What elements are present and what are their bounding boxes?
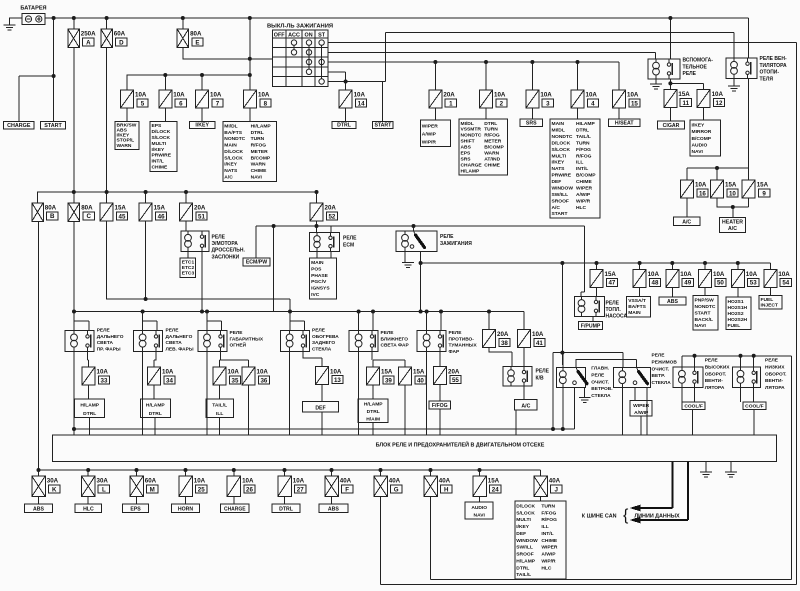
svg-text:HLC: HLC <box>576 205 587 211</box>
svg-text:ОЧИСТ.: ОЧИСТ. <box>591 379 609 385</box>
svg-text:OFF: OFF <box>274 32 285 38</box>
svg-text:WARN: WARN <box>484 151 499 157</box>
wire fan relay output bus <box>687 79 749 181</box>
wire wiper mode outputs <box>622 388 647 436</box>
svg-text:WIP/R: WIP/R <box>576 198 591 204</box>
svg-text:ILL: ILL <box>576 160 583 166</box>
wire relay 6 feed <box>427 312 441 331</box>
svg-text:R/FOG: R/FOG <box>251 143 267 149</box>
label box F/PUMP <box>579 322 603 330</box>
fusible link K (30A) <box>32 476 60 497</box>
svg-text:PNP/SW: PNP/SW <box>695 298 715 304</box>
svg-text:45: 45 <box>119 213 126 220</box>
list box fuse 8 loads <box>223 121 276 181</box>
svg-text:L: L <box>102 486 106 493</box>
svg-text:C: C <box>86 213 91 220</box>
wire ETC contact output <box>201 252 203 312</box>
wire fuse 10,9 outputs <box>717 198 749 217</box>
svg-text:К/В: К/В <box>536 375 544 381</box>
junction dots wiper feed <box>560 351 564 355</box>
svg-text:NATS: NATS <box>552 166 566 172</box>
fuse 6 (10A) <box>159 90 187 108</box>
fusible link H (40A) <box>424 476 452 497</box>
svg-text:MI/DL: MI/DL <box>461 121 474 127</box>
svg-text:ОБОРОТ.: ОБОРОТ. <box>705 371 727 377</box>
label box EPS <box>123 504 149 513</box>
svg-text:10A: 10A <box>712 91 724 98</box>
list box fuse 50 loads <box>693 296 718 331</box>
svg-text:POS: POS <box>311 266 322 272</box>
svg-text:ВЕТР.: ВЕТР. <box>652 373 666 379</box>
text fan low name <box>765 358 787 392</box>
svg-text:10A: 10A <box>354 92 366 99</box>
svg-text:РЕЛЕ: РЕЛЕ <box>705 358 719 364</box>
wire wiper relay feed line <box>553 353 623 429</box>
wire bus 263 <box>421 263 771 365</box>
svg-text:COOL/F: COOL/F <box>745 403 763 409</box>
svg-text:TAIL/L: TAIL/L <box>212 403 227 409</box>
svg-text:H/LAMP: H/LAMP <box>461 168 480 174</box>
wire fuse 33 output <box>89 385 90 435</box>
wire wiper blade link <box>576 360 637 368</box>
svg-text:CHIME: CHIME <box>541 538 557 544</box>
label box HEATER A/C <box>720 217 746 232</box>
svg-text:CHIME: CHIME <box>152 165 168 171</box>
svg-text:СТЕКЛА: СТЕКЛА <box>652 380 672 386</box>
wire fuse 47-54 outputs <box>597 287 771 297</box>
ground block 2 <box>725 472 737 477</box>
relay fan high (РЕЛЕ ВЫСОКИХ ОБОРОТ. ВЕНТИЛЯТОРА) <box>673 367 703 387</box>
fusible link C (80A) <box>68 203 94 222</box>
svg-text:40A: 40A <box>549 478 561 485</box>
svg-text:48: 48 <box>652 280 659 287</box>
svg-text:5: 5 <box>141 100 145 107</box>
svg-text:49: 49 <box>684 280 691 287</box>
svg-text:I/KEY: I/KEY <box>692 122 706 128</box>
ground wiper main <box>579 398 591 403</box>
wire fuse 5-8 bus <box>127 75 250 90</box>
svg-text:ВЫКЛ-ЛЬ ЗАЖИГАНИЯ: ВЫКЛ-ЛЬ ЗАЖИГАНИЯ <box>267 24 333 30</box>
svg-text:РЕЛЕ: РЕЛЕ <box>166 328 180 334</box>
svg-text:ВЕНТИ-: ВЕНТИ- <box>765 378 784 384</box>
fuse 16 (10A) <box>681 180 709 198</box>
svg-text:РЕЛЕ: РЕЛЕ <box>683 71 697 77</box>
list box ETC loads <box>180 258 196 278</box>
svg-text:DTRL: DTRL <box>516 565 529 571</box>
fuse 39 (15A) <box>367 367 395 385</box>
svg-text:52: 52 <box>328 213 335 220</box>
label box A/C bottom <box>515 400 538 410</box>
label box TAIL ILL <box>206 399 234 417</box>
text relay5 name <box>381 330 410 349</box>
wire fuse 11,12 outputs <box>670 108 703 122</box>
wire AC relay output <box>516 386 524 435</box>
fusible link B (80A) <box>32 203 58 222</box>
svg-text:53: 53 <box>750 280 757 287</box>
svg-text:WIP/R: WIP/R <box>541 558 556 564</box>
svg-text:HO2S1: HO2S1 <box>728 299 744 305</box>
svg-text:ПРОТИВО-: ПРОТИВО- <box>449 336 475 342</box>
svg-text:D/LOCK: D/LOCK <box>224 149 243 155</box>
svg-text:15A: 15A <box>413 369 425 376</box>
fuse 35 (10A) <box>213 367 241 385</box>
svg-text:IVC: IVC <box>311 292 320 298</box>
text data lines label <box>634 514 680 520</box>
svg-text:10A: 10A <box>162 369 174 376</box>
svg-text:SRS: SRS <box>461 156 472 162</box>
svg-text:COOL/F: COOL/F <box>684 403 702 409</box>
relay ignition (РЕЛЕ ЗАЖИГАНИЯ) <box>396 231 437 252</box>
text fan relay name <box>760 56 787 82</box>
svg-text:DTRL: DTRL <box>279 507 294 513</box>
svg-text:MIRROR: MIRROR <box>692 129 712 135</box>
svg-text:БЛОК РЕЛЕ И ПРЕДОХРАНИТЕЛЕЙ В: БЛОК РЕЛЕ И ПРЕДОХРАНИТЕЛЕЙ В ДВИГАТЕЛЬН… <box>376 441 545 449</box>
wire row4 output to fuse 14 <box>328 72 345 90</box>
svg-text:F/FOG: F/FOG <box>432 403 448 409</box>
svg-text:BA/FTS: BA/FTS <box>628 304 646 310</box>
junction dots bus 263 <box>419 261 740 265</box>
svg-text:B/COMP: B/COMP <box>484 145 504 151</box>
svg-text:DTRL: DTRL <box>367 409 380 415</box>
svg-text:NONDTC: NONDTC <box>552 134 573 140</box>
fuse 34 (10A) <box>148 367 176 385</box>
svg-text:TAIL/L: TAIL/L <box>576 134 591 140</box>
svg-text:S/LOCK: S/LOCK <box>516 510 535 516</box>
fusible link F (40A) <box>325 476 353 497</box>
label box HORN <box>172 504 200 513</box>
svg-text:VSSA/T: VSSA/T <box>628 298 646 304</box>
wire fan relay feed line <box>431 356 792 580</box>
svg-text:ДАЛЬНЕГО: ДАЛЬНЕГО <box>166 334 193 340</box>
svg-text:AT/IND: AT/IND <box>484 156 500 162</box>
CAN arrow 1 <box>630 505 641 512</box>
svg-text:10A: 10A <box>746 271 758 278</box>
svg-text:CIGAR: CIGAR <box>663 123 680 129</box>
svg-text:ФАР: ФАР <box>449 349 460 355</box>
svg-text:16: 16 <box>699 190 706 197</box>
svg-text:1: 1 <box>449 100 453 107</box>
wire charge/start feed <box>19 18 54 122</box>
svg-text:10A: 10A <box>532 331 544 338</box>
wire fuse 13 output <box>321 385 323 436</box>
svg-text:EPS: EPS <box>461 151 472 157</box>
svg-text:A/C: A/C <box>682 219 691 225</box>
svg-text:ОБОГРЕВА: ОБОГРЕВА <box>312 334 339 340</box>
junction dots ignition outputs <box>344 60 580 84</box>
fuse 45 (15A) <box>100 203 128 221</box>
wire fuse 16 output <box>686 198 688 217</box>
text ETC relay name <box>212 235 246 261</box>
svg-text:ACC: ACC <box>288 32 300 38</box>
wire fuse 5-8,14 outputs <box>127 108 346 121</box>
wire fuse 39,40 outputs <box>373 385 405 435</box>
svg-text:SROOF: SROOF <box>516 552 533 558</box>
ground block 1 <box>700 472 712 477</box>
svg-text:40A: 40A <box>389 478 401 485</box>
fuse 51 (20A) <box>180 203 208 221</box>
svg-text:15: 15 <box>631 100 638 107</box>
svg-text:DTRL: DTRL <box>337 122 352 128</box>
svg-text:РЕЛЕ: РЕЛЕ <box>381 330 395 336</box>
wire bottom outputs <box>39 497 541 505</box>
CAN arrow 2 <box>630 517 641 524</box>
label box WIPER AWIP <box>630 401 652 416</box>
svg-text:10A: 10A <box>97 369 109 376</box>
svg-text:ЛЯТОРА: ЛЯТОРА <box>705 385 725 391</box>
svg-text:10A: 10A <box>242 478 254 485</box>
svg-text:36: 36 <box>260 377 267 384</box>
svg-text:INT/L: INT/L <box>541 531 553 537</box>
svg-text:СВЕТА ФАР: СВЕТА ФАР <box>381 343 410 349</box>
wire fuse 1-4,15 outputs <box>435 108 619 120</box>
svg-text:H/AIM: H/AIM <box>366 416 380 422</box>
svg-text:TURN: TURN <box>251 136 265 142</box>
wire relay5 outputs <box>359 352 405 436</box>
svg-text:250A: 250A <box>81 31 96 38</box>
svg-text:20A: 20A <box>194 205 206 212</box>
fuse 14 (10A) <box>339 90 367 108</box>
fuse 33 (10A) <box>82 367 110 385</box>
svg-text:DTRL: DTRL <box>576 128 589 134</box>
wire link E drop <box>183 18 250 59</box>
svg-text:NONDTC: NONDTC <box>224 136 245 142</box>
svg-text:10A: 10A <box>540 92 552 99</box>
svg-text:СВЕТА: СВЕТА <box>166 340 183 346</box>
label box ECM/PW <box>243 258 270 266</box>
fuse 1 (20A) <box>429 90 457 108</box>
wire aux relay output <box>670 79 703 90</box>
label box HLAMP DTRL HAIM <box>358 399 388 423</box>
svg-text:F/FOG: F/FOG <box>541 510 556 516</box>
svg-text:WIP/R: WIP/R <box>422 139 437 145</box>
list box fuse 4 loads <box>550 119 600 218</box>
svg-text:БАТАРЕЯ: БАТАРЕЯ <box>20 6 46 12</box>
fuse 15 (10A) <box>613 90 641 108</box>
fusible link A (250A) <box>68 29 96 48</box>
svg-text:K: K <box>52 486 57 493</box>
svg-text:15A: 15A <box>725 182 737 189</box>
svg-text:BRK/SW: BRK/SW <box>117 122 137 128</box>
svg-text:ТЕЛЬНОЕ: ТЕЛЬНОЕ <box>683 64 708 70</box>
svg-text:46: 46 <box>158 213 165 220</box>
text ECM relay name <box>343 236 357 249</box>
label box SRS <box>520 119 543 127</box>
svg-text:MULTI: MULTI <box>552 153 567 159</box>
svg-text:15A: 15A <box>605 271 617 278</box>
svg-text:CHIME: CHIME <box>576 179 592 185</box>
svg-text:ECM: ECM <box>343 242 354 248</box>
svg-text:ПР. ФАРЫ: ПР. ФАРЫ <box>97 346 121 352</box>
svg-text:СТЕКЛА: СТЕКЛА <box>591 393 611 399</box>
relay throttle motor (РЕЛЕ Э/МОТОРА ДРОССЕЛЬН. ЗАСЛОНКИ) <box>181 231 209 252</box>
list box ECM loads <box>310 258 337 299</box>
wire ignition relay supply line 226 <box>256 221 585 312</box>
svg-text:F/FOG: F/FOG <box>576 147 591 153</box>
svg-text:PRWIRE: PRWIRE <box>152 153 172 159</box>
svg-text:MAIN: MAIN <box>552 121 565 127</box>
svg-text:10A: 10A <box>648 271 660 278</box>
svg-text:SW/ILL: SW/ILL <box>516 545 533 551</box>
svg-text:ABS: ABS <box>461 145 472 151</box>
label box DEF <box>303 402 339 412</box>
svg-text:CHIME: CHIME <box>484 162 500 168</box>
text relay1 name <box>97 328 124 353</box>
svg-text:80A: 80A <box>81 205 93 212</box>
svg-text:РЕЛЕ: РЕЛЕ <box>440 234 454 240</box>
svg-text:H: H <box>444 486 449 493</box>
wire bus P 299 <box>107 221 291 312</box>
junction dots bus 192 <box>72 190 319 194</box>
svg-text:I/KEY: I/KEY <box>552 160 566 166</box>
svg-text:H/LAMP: H/LAMP <box>146 403 165 409</box>
svg-text:METER: METER <box>251 149 269 155</box>
svg-text:РЕЛЕ: РЕЛЕ <box>765 358 779 364</box>
svg-text:TAIL/L: TAIL/L <box>516 572 531 578</box>
svg-text:9: 9 <box>762 190 766 197</box>
relay high beam LH (РЕЛЕ ДАЛЬНЕГО СВЕТА ЛЕВ. ФАРЫ) <box>134 331 163 352</box>
svg-text:ЗАДНЕГО: ЗАДНЕГО <box>312 340 335 346</box>
svg-text:3: 3 <box>546 100 550 107</box>
text wiper main name <box>591 366 612 400</box>
svg-text:CHARGE: CHARGE <box>224 507 246 513</box>
svg-text:39: 39 <box>385 377 392 384</box>
svg-text:I/KEY: I/KEY <box>516 524 530 530</box>
label box ABS 49 <box>659 297 686 305</box>
svg-text:BACK/L: BACK/L <box>695 317 713 323</box>
svg-text:54: 54 <box>782 280 789 287</box>
svg-text:HILAMP: HILAMP <box>576 121 595 127</box>
svg-text:I/KEY: I/KEY <box>195 122 209 128</box>
svg-text:ST: ST <box>318 32 326 38</box>
wire block grounds leads <box>706 461 731 472</box>
wire aux relay contact feed <box>669 18 671 59</box>
svg-text:10A: 10A <box>258 92 270 99</box>
svg-text:15A: 15A <box>757 182 769 189</box>
list box fuse 2 loads <box>459 119 508 175</box>
fuse 10 (15A) <box>711 180 739 198</box>
svg-text:D: D <box>119 39 124 46</box>
svg-text:S/LOCK: S/LOCK <box>552 147 571 153</box>
fuse 27 (10A) <box>278 476 306 497</box>
fuse 52 (20A) <box>310 203 338 221</box>
svg-text:ABS: ABS <box>117 128 128 134</box>
svg-text:СТЕКЛА: СТЕКЛА <box>312 346 332 352</box>
svg-text:20A: 20A <box>443 92 455 99</box>
fuse 50 (10A) <box>699 269 727 287</box>
list box fuse 53 loads <box>726 297 751 330</box>
svg-text:NONDTC: NONDTC <box>461 133 482 139</box>
svg-text:15A: 15A <box>115 205 127 212</box>
svg-text:24: 24 <box>492 486 499 493</box>
text CAN label <box>582 514 617 520</box>
svg-text:IGNSYS: IGNSYS <box>311 286 330 292</box>
junction dots return bus <box>72 427 565 431</box>
svg-text:ILL: ILL <box>541 524 548 530</box>
svg-text:НАСОСА: НАСОСА <box>606 314 628 320</box>
text fuel pump relay name <box>606 301 628 320</box>
fuse 24 (15A) <box>473 476 501 497</box>
svg-text:H/SEAT: H/SEAT <box>615 121 634 127</box>
svg-text:I/KEY: I/KEY <box>224 162 238 168</box>
svg-text:ABS: ABS <box>33 507 44 513</box>
svg-text:METER: METER <box>484 139 502 145</box>
label box CHARGE b <box>221 504 250 513</box>
svg-text:ТУМАННЫХ: ТУМАННЫХ <box>449 343 478 349</box>
svg-text:F: F <box>345 486 349 493</box>
svg-text:БЛИЖНЕГО: БЛИЖНЕГО <box>381 336 409 342</box>
label box HLC <box>75 504 101 513</box>
svg-text:HLC: HLC <box>83 507 94 513</box>
svg-text:ТОПЛ.: ТОПЛ. <box>606 307 622 313</box>
svg-text:HO2S2H: HO2S2H <box>728 317 748 323</box>
svg-text:ON: ON <box>305 32 313 38</box>
wire ACC row output <box>328 43 797 585</box>
wire relay4 outputs <box>290 352 322 436</box>
svg-text:TURN: TURN <box>541 504 555 510</box>
wire bottom bus 470 <box>39 221 541 476</box>
svg-text:РЕЛЕ: РЕЛЕ <box>343 236 357 242</box>
svg-text:РЕЛЕ: РЕЛЕ <box>312 328 326 334</box>
svg-text:A/WIP: A/WIP <box>422 131 437 137</box>
text wiper mode name <box>652 353 678 387</box>
svg-text:MI/DL: MI/DL <box>552 128 565 134</box>
wire fuse 35,36 outputs <box>220 385 249 435</box>
svg-text:PHASE: PHASE <box>311 273 329 279</box>
svg-text:80A: 80A <box>190 31 202 38</box>
wire relay 5 feed <box>359 312 373 331</box>
svg-text:DEF: DEF <box>315 406 325 412</box>
svg-text:РЕЛЕ ВЕН-: РЕЛЕ ВЕН- <box>760 56 787 62</box>
svg-text:30A: 30A <box>47 478 59 485</box>
wire ON row output fuse bus <box>328 62 619 90</box>
svg-text:EPS: EPS <box>130 507 141 513</box>
wire relay6 outputs <box>427 352 440 436</box>
fuse 8 (10A) <box>244 90 272 108</box>
svg-text:DEF: DEF <box>516 531 526 537</box>
svg-text:14: 14 <box>358 100 365 107</box>
svg-text:HEATER: HEATER <box>722 219 743 225</box>
svg-text:A/WIP: A/WIP <box>541 552 556 558</box>
wire fuse 34 output <box>154 385 155 435</box>
list box fuse 5 loads <box>115 121 139 149</box>
svg-text:DTRL: DTRL <box>484 121 497 127</box>
svg-text:ВЕНТИ-: ВЕНТИ- <box>705 378 724 384</box>
svg-text:HI/LAMP: HI/LAMP <box>251 123 272 129</box>
svg-text:R/FOG: R/FOG <box>576 153 592 159</box>
svg-text:60A: 60A <box>145 478 157 485</box>
svg-text:33: 33 <box>101 377 108 384</box>
fuse 48 (10A) <box>633 269 661 287</box>
svg-text:B: B <box>50 213 55 220</box>
wire battery positive bus <box>45 17 749 19</box>
relay fan low (РЕЛЕ НИЗКИХ ОБОРОТ. ВЕНТИЛЯТОРА) <box>733 367 761 387</box>
list box fuse 48 loads <box>627 296 651 317</box>
junction dots bottom bus <box>37 468 482 472</box>
svg-text:РЕЛЕ: РЕЛЕ <box>97 328 111 334</box>
svg-text:ECM/PW: ECM/PW <box>246 260 267 266</box>
svg-text:ОЧИСТ.: ОЧИСТ. <box>652 366 670 372</box>
svg-text:J: J <box>554 486 558 493</box>
svg-text:FUEL: FUEL <box>761 297 774 303</box>
svg-text:2: 2 <box>500 100 504 107</box>
svg-text:40A: 40A <box>340 478 352 485</box>
label box HLAMP DTRL 33 <box>75 399 105 417</box>
label box START <box>41 122 66 130</box>
fuse 26 (10A) <box>227 476 255 497</box>
text ignition relay name <box>440 234 472 247</box>
label box DTRL b <box>272 504 300 513</box>
svg-text:G: G <box>394 486 399 493</box>
